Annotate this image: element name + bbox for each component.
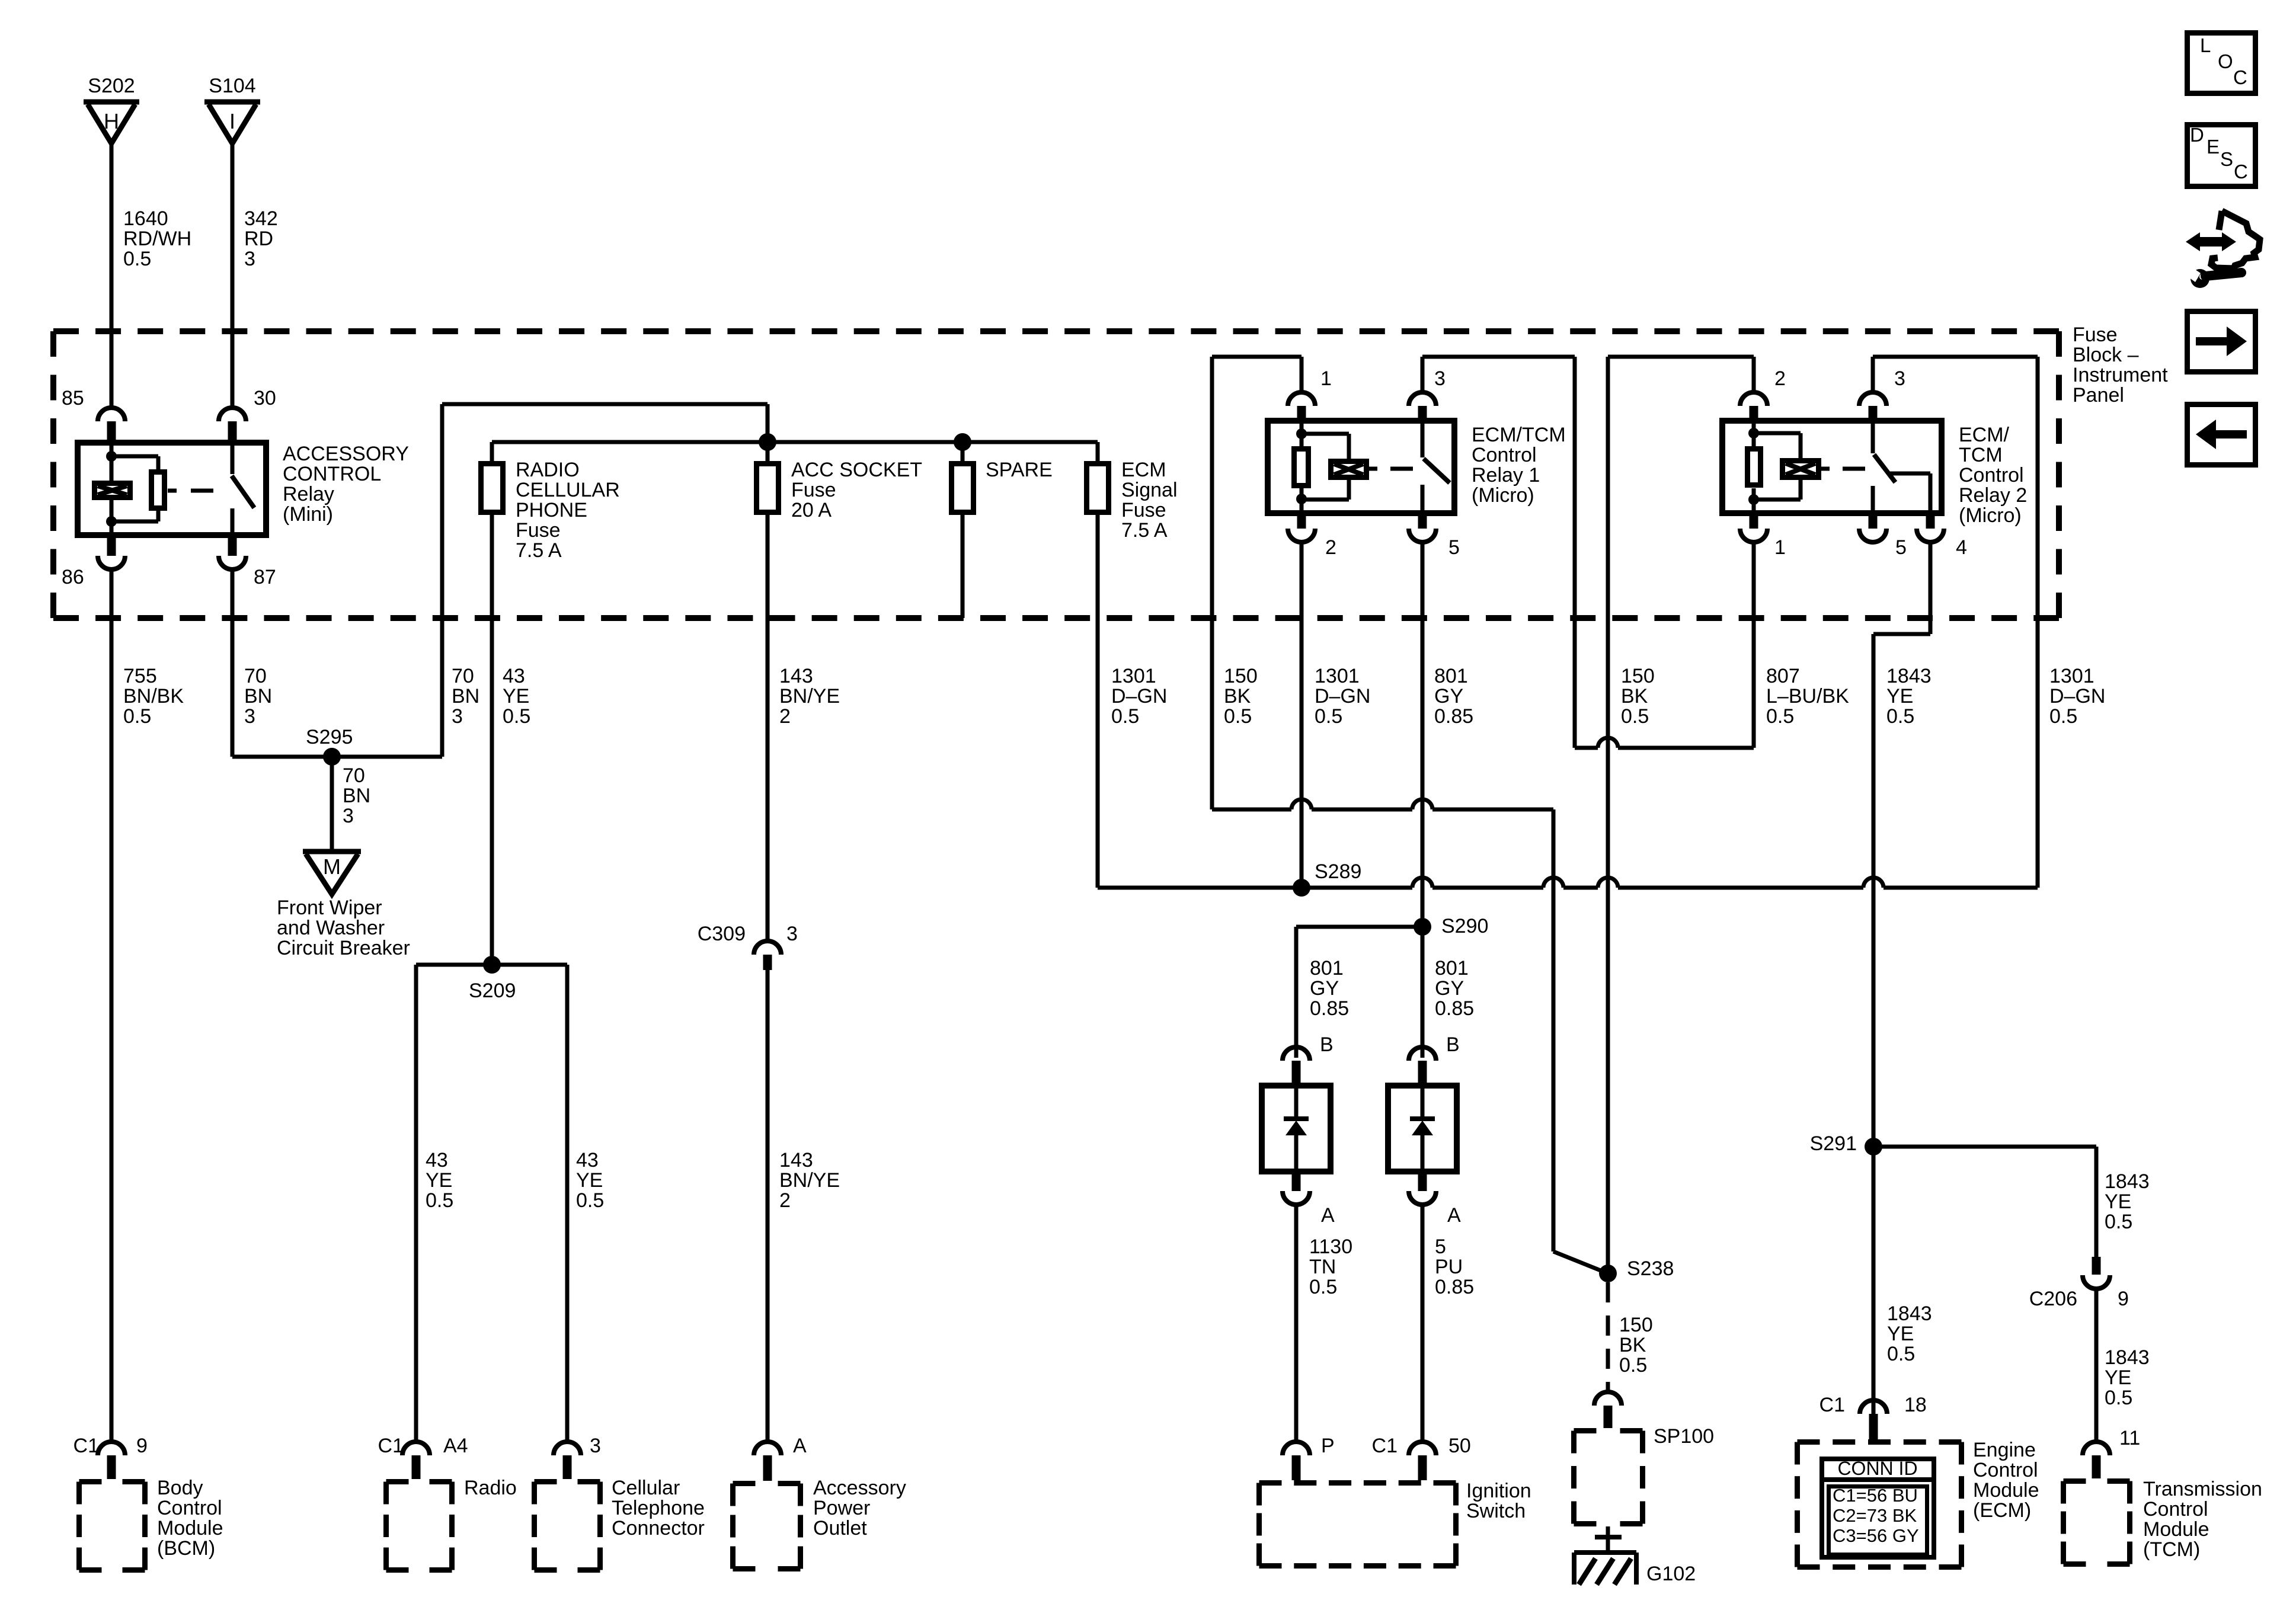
svg-text:C1: C1 bbox=[1819, 1394, 1845, 1416]
wire 1843 YE S291 right branch to C206 bbox=[1873, 1145, 2096, 1149]
splice S209 bbox=[416, 963, 567, 967]
svg-text:CONN ID: CONN ID bbox=[1837, 1458, 1917, 1479]
svg-text:1: 1 bbox=[1320, 367, 1332, 390]
icon box LOC bbox=[2188, 33, 2256, 94]
wire 1843 YE C206 to TCM bbox=[2094, 1289, 2099, 1442]
svg-text:2: 2 bbox=[1774, 367, 1786, 390]
wire 150 BK down to S238 bbox=[1552, 809, 1556, 1251]
ground G102 bbox=[1595, 1535, 1622, 1539]
svg-text:S209: S209 bbox=[469, 980, 516, 1002]
module Ignition Switch dashed box bbox=[1259, 1480, 1456, 1486]
wire 755 BN/BK pin 86 to BCM bbox=[110, 569, 114, 1442]
splice S238 bbox=[1599, 1265, 1617, 1282]
wire S209 to Cellular Telephone Connector bbox=[565, 965, 570, 1442]
svg-text:O: O bbox=[2218, 50, 2233, 72]
wire 1301 D-GN from ECM Signal fuse bbox=[1096, 442, 1100, 461]
mini relay resistor branch bbox=[111, 454, 158, 459]
relay2 pin 3 connector bbox=[1859, 392, 1886, 406]
wire pin 87 to S295 bbox=[231, 569, 235, 757]
svg-text:M: M bbox=[323, 854, 341, 879]
icon box arrow right bbox=[2188, 312, 2256, 372]
diode module left bbox=[1283, 1047, 1310, 1061]
connector C1-9 at BCM bbox=[98, 1442, 125, 1455]
svg-text:S: S bbox=[2220, 148, 2233, 170]
icon car with double arrow and wrench bbox=[2186, 232, 2236, 251]
module Radio dashed box bbox=[386, 1479, 452, 1484]
relay2 pin 2 connector bbox=[1740, 392, 1767, 406]
splice S289 bus 1301 D-GN bbox=[1098, 886, 1412, 890]
relay1 switch bbox=[1421, 418, 1425, 457]
splice S295 bbox=[323, 748, 341, 766]
fuse feed bus bbox=[492, 440, 1098, 444]
fuse ACC SOCKET 20A bbox=[757, 464, 779, 513]
svg-text:3: 3 bbox=[1894, 367, 1905, 390]
svg-text:85: 85 bbox=[62, 387, 84, 409]
svg-text:3: 3 bbox=[590, 1435, 601, 1457]
relay: ECM/TCM Control Relay 2 (Micro) bbox=[1722, 421, 1942, 513]
wire 150 BK horizontal to S238 drop bbox=[1212, 808, 1291, 812]
relay1 inline resistor bbox=[1300, 418, 1304, 446]
wire SP100 to G102 bbox=[1606, 1526, 1610, 1553]
relay2 coil branch bbox=[1754, 431, 1801, 436]
relay: ACCESSORY CONTROL Relay (Mini) bbox=[78, 443, 266, 535]
relay2 pin 1 connector bbox=[1750, 516, 1758, 529]
svg-text:2: 2 bbox=[1325, 536, 1336, 559]
svg-text:S202: S202 bbox=[88, 75, 135, 97]
junction at ACC SOCKET fuse bbox=[759, 433, 776, 451]
relay2 pin 5 connector bbox=[1869, 516, 1878, 529]
relay pin 86 connector bbox=[107, 538, 116, 556]
svg-text:G102: G102 bbox=[1646, 1563, 1696, 1585]
connector S202 (triangle H) bbox=[84, 100, 139, 105]
relay2 switch bbox=[1871, 418, 1875, 453]
relay1 pin 3 connector bbox=[1409, 392, 1436, 406]
icon box DESC bbox=[2188, 125, 2256, 187]
diode symbol left bbox=[1294, 1083, 1299, 1119]
wire 43 YE from radio fuse bbox=[490, 442, 494, 461]
dashed wire 150 BK S238 to SP100 bbox=[1606, 1282, 1610, 1392]
svg-text:A: A bbox=[1447, 1204, 1461, 1227]
svg-text:S290: S290 bbox=[1441, 915, 1488, 937]
svg-text:C1: C1 bbox=[378, 1435, 404, 1457]
svg-text:C1: C1 bbox=[73, 1435, 99, 1457]
module Cellular Telephone Connector dashed box bbox=[535, 1479, 600, 1484]
svg-text:Radio: Radio bbox=[464, 1477, 517, 1499]
wire 801 GY relay1 pin5 to S290 bbox=[1421, 542, 1425, 927]
svg-text:H: H bbox=[104, 109, 119, 133]
connector P at Ignition Switch bbox=[1283, 1442, 1310, 1455]
mini relay coil branch bbox=[110, 440, 114, 481]
wire 1843 YE relay2 pin4 to S291 bbox=[1929, 542, 1933, 634]
svg-text:SP100: SP100 bbox=[1654, 1425, 1714, 1448]
wire 1130 TN to ignition switch P bbox=[1294, 1205, 1299, 1442]
svg-text:50: 50 bbox=[1448, 1435, 1471, 1457]
relay pin 87 connector bbox=[228, 538, 237, 556]
wire 807 L-BU/BK up to relay2 pin 1 bbox=[1752, 542, 1756, 748]
svg-text:87: 87 bbox=[254, 566, 276, 588]
relay1 pin 5 connector bbox=[1418, 516, 1427, 529]
svg-text:C1=56 BUC2=73 BKC3=56 GY: C1=56 BUC2=73 BKC3=56 GY bbox=[1833, 1485, 1919, 1546]
relay pin 30 connector bbox=[219, 408, 246, 421]
svg-text:S291: S291 bbox=[1810, 1132, 1857, 1155]
connector C1-A4 at Radio bbox=[402, 1442, 430, 1455]
splice pack SP100 dashed box bbox=[1574, 1428, 1643, 1433]
connector 11 at TCM bbox=[2083, 1442, 2110, 1455]
svg-text:9: 9 bbox=[136, 1435, 148, 1457]
relay pin 85 connector bbox=[98, 408, 125, 421]
svg-text:1: 1 bbox=[1774, 536, 1786, 559]
wire 807 L-BU/BK horizontal to relay2 pin1 bbox=[1575, 746, 1598, 750]
wire 342 RD from S104 to relay pin 30 bbox=[231, 145, 235, 408]
svg-text:S295: S295 bbox=[306, 726, 353, 748]
svg-text:B: B bbox=[1320, 1033, 1334, 1056]
mini relay linkage dashes bbox=[168, 489, 177, 493]
relay2 linkage dashes bbox=[1821, 467, 1830, 471]
svg-text:I: I bbox=[229, 109, 235, 133]
relay1 linkage dashes bbox=[1369, 467, 1377, 471]
svg-text:86: 86 bbox=[62, 566, 84, 588]
relay1 pin 1 connector bbox=[1288, 392, 1315, 406]
svg-text:C206: C206 bbox=[2029, 1288, 2077, 1310]
svg-text:3: 3 bbox=[1434, 367, 1446, 390]
fuse RADIO CELLULAR PHONE 7.5A bbox=[481, 464, 503, 513]
svg-text:30: 30 bbox=[254, 387, 276, 409]
relay2 contact to pin 4 bbox=[1888, 472, 1930, 476]
module Body Control Module (BCM) dashed box bbox=[79, 1479, 145, 1484]
wire S295 to M breaker bbox=[330, 757, 334, 852]
diode symbol right bbox=[1421, 1083, 1425, 1119]
fuse SPARE bbox=[952, 464, 974, 513]
svg-text:C: C bbox=[2233, 66, 2247, 88]
svg-text:E: E bbox=[2207, 136, 2220, 158]
connector 3 at Cellular Telephone Connector bbox=[554, 1442, 581, 1455]
wire below SPARE fuse bbox=[961, 442, 965, 461]
splice S289 bbox=[1293, 879, 1310, 897]
connector A at Accessory Power Outlet bbox=[754, 1442, 781, 1455]
icon box arrow left bbox=[2188, 405, 2256, 465]
svg-text:B: B bbox=[1446, 1033, 1460, 1056]
wire 1301 D-GN relay2 pin3 loop bbox=[1871, 357, 1875, 393]
svg-text:S289: S289 bbox=[1315, 860, 1361, 883]
svg-text:SPARE: SPARE bbox=[986, 459, 1053, 481]
svg-text:EngineControlModule(ECM): EngineControlModule(ECM) bbox=[1973, 1439, 2039, 1522]
wire 143 BN/YE from ACC SOCKET fuse bbox=[766, 442, 770, 461]
wire 150 BK relay2 pin2 loop to S238 bbox=[1752, 357, 1756, 393]
svg-text:9: 9 bbox=[2118, 1288, 2129, 1310]
connector at SP100 bbox=[1594, 1392, 1622, 1406]
module Engine Control Module (ECM) dashed box bbox=[1798, 1439, 1962, 1445]
svg-text:3: 3 bbox=[786, 923, 798, 945]
wire 1640 RD/WH from S202 to relay pin 85 bbox=[110, 145, 114, 408]
diode module right bbox=[1409, 1047, 1436, 1061]
svg-text:5: 5 bbox=[1895, 536, 1907, 559]
CONN ID table bbox=[1822, 1459, 1934, 1557]
splice S291 bbox=[1865, 1138, 1882, 1156]
relay2 inline resistor bbox=[1752, 418, 1756, 446]
relay: ECM/TCM Control Relay 1 (Micro) bbox=[1268, 421, 1454, 513]
svg-text:S238: S238 bbox=[1627, 1257, 1674, 1280]
wire 150 BK diagonal into S238 bbox=[1553, 1251, 1608, 1273]
wire 1843 YE S291 to ECM bbox=[1872, 1147, 1876, 1442]
svg-text:4: 4 bbox=[1956, 536, 1967, 559]
connector S104 (triangle I) bbox=[204, 100, 260, 105]
connector C1-18 at ECM bbox=[1860, 1400, 1887, 1414]
svg-text:5: 5 bbox=[1448, 536, 1460, 559]
relay1 coil branch bbox=[1302, 432, 1349, 436]
relay2 pin 4 connector bbox=[1926, 516, 1935, 529]
svg-text:S104: S104 bbox=[209, 75, 255, 97]
svg-text:A: A bbox=[1321, 1204, 1335, 1227]
svg-text:C309: C309 bbox=[698, 923, 746, 945]
connector C1-50 at Ignition Switch bbox=[1409, 1442, 1436, 1455]
svg-text:C: C bbox=[2234, 161, 2248, 183]
svg-text:11: 11 bbox=[2119, 1427, 2140, 1449]
connector C309 bbox=[754, 941, 781, 955]
splice S295 horizontal wire bbox=[232, 755, 442, 759]
wire 150 BK relay1 pin1 loop bbox=[1300, 357, 1304, 393]
mini relay switch bbox=[231, 440, 235, 474]
splice S290 bbox=[1296, 925, 1422, 929]
svg-text:A: A bbox=[793, 1435, 807, 1457]
junction at SPARE fuse bbox=[954, 433, 971, 451]
svg-text:A4: A4 bbox=[443, 1435, 468, 1457]
svg-text:P: P bbox=[1321, 1435, 1335, 1457]
svg-text:D: D bbox=[2190, 124, 2204, 146]
relay1 pin 2 connector bbox=[1297, 516, 1306, 529]
svg-text:L: L bbox=[2200, 34, 2211, 56]
connector M triangle (Front Wiper and Washer Circuit Breaker) bbox=[303, 849, 361, 854]
svg-text:IgnitionSwitch: IgnitionSwitch bbox=[1466, 1480, 1531, 1522]
connector C206 bbox=[2092, 1257, 2101, 1275]
wire S209 to Radio bbox=[414, 965, 418, 1442]
wire 5 PU to ignition switch 50 bbox=[1421, 1205, 1425, 1442]
Fuse Block - Instrument Panel dashed boundary bbox=[53, 328, 2059, 334]
wire 1301 D-GN relay1 pin2 to S289 bbox=[1300, 542, 1304, 888]
wire 143 BN/YE to Accessory Power Outlet bbox=[766, 970, 770, 1442]
svg-text:18: 18 bbox=[1904, 1394, 1927, 1416]
module Transmission Control Module (TCM) dashed box bbox=[2064, 1478, 2130, 1484]
wire 807 L-BU/BK relay1 pin3 loop bbox=[1421, 357, 1425, 393]
wire 801 GY S290 left branch to diode bbox=[1294, 927, 1299, 1058]
fuse ECM Signal 7.5A bbox=[1087, 464, 1109, 513]
module Accessory Power Outlet dashed box bbox=[733, 1481, 801, 1486]
wire 801 GY S290 right branch to diode bbox=[1421, 927, 1425, 1058]
svg-text:C1: C1 bbox=[1372, 1435, 1398, 1457]
wire 70 BN feed up to fuse bus bbox=[440, 404, 445, 757]
